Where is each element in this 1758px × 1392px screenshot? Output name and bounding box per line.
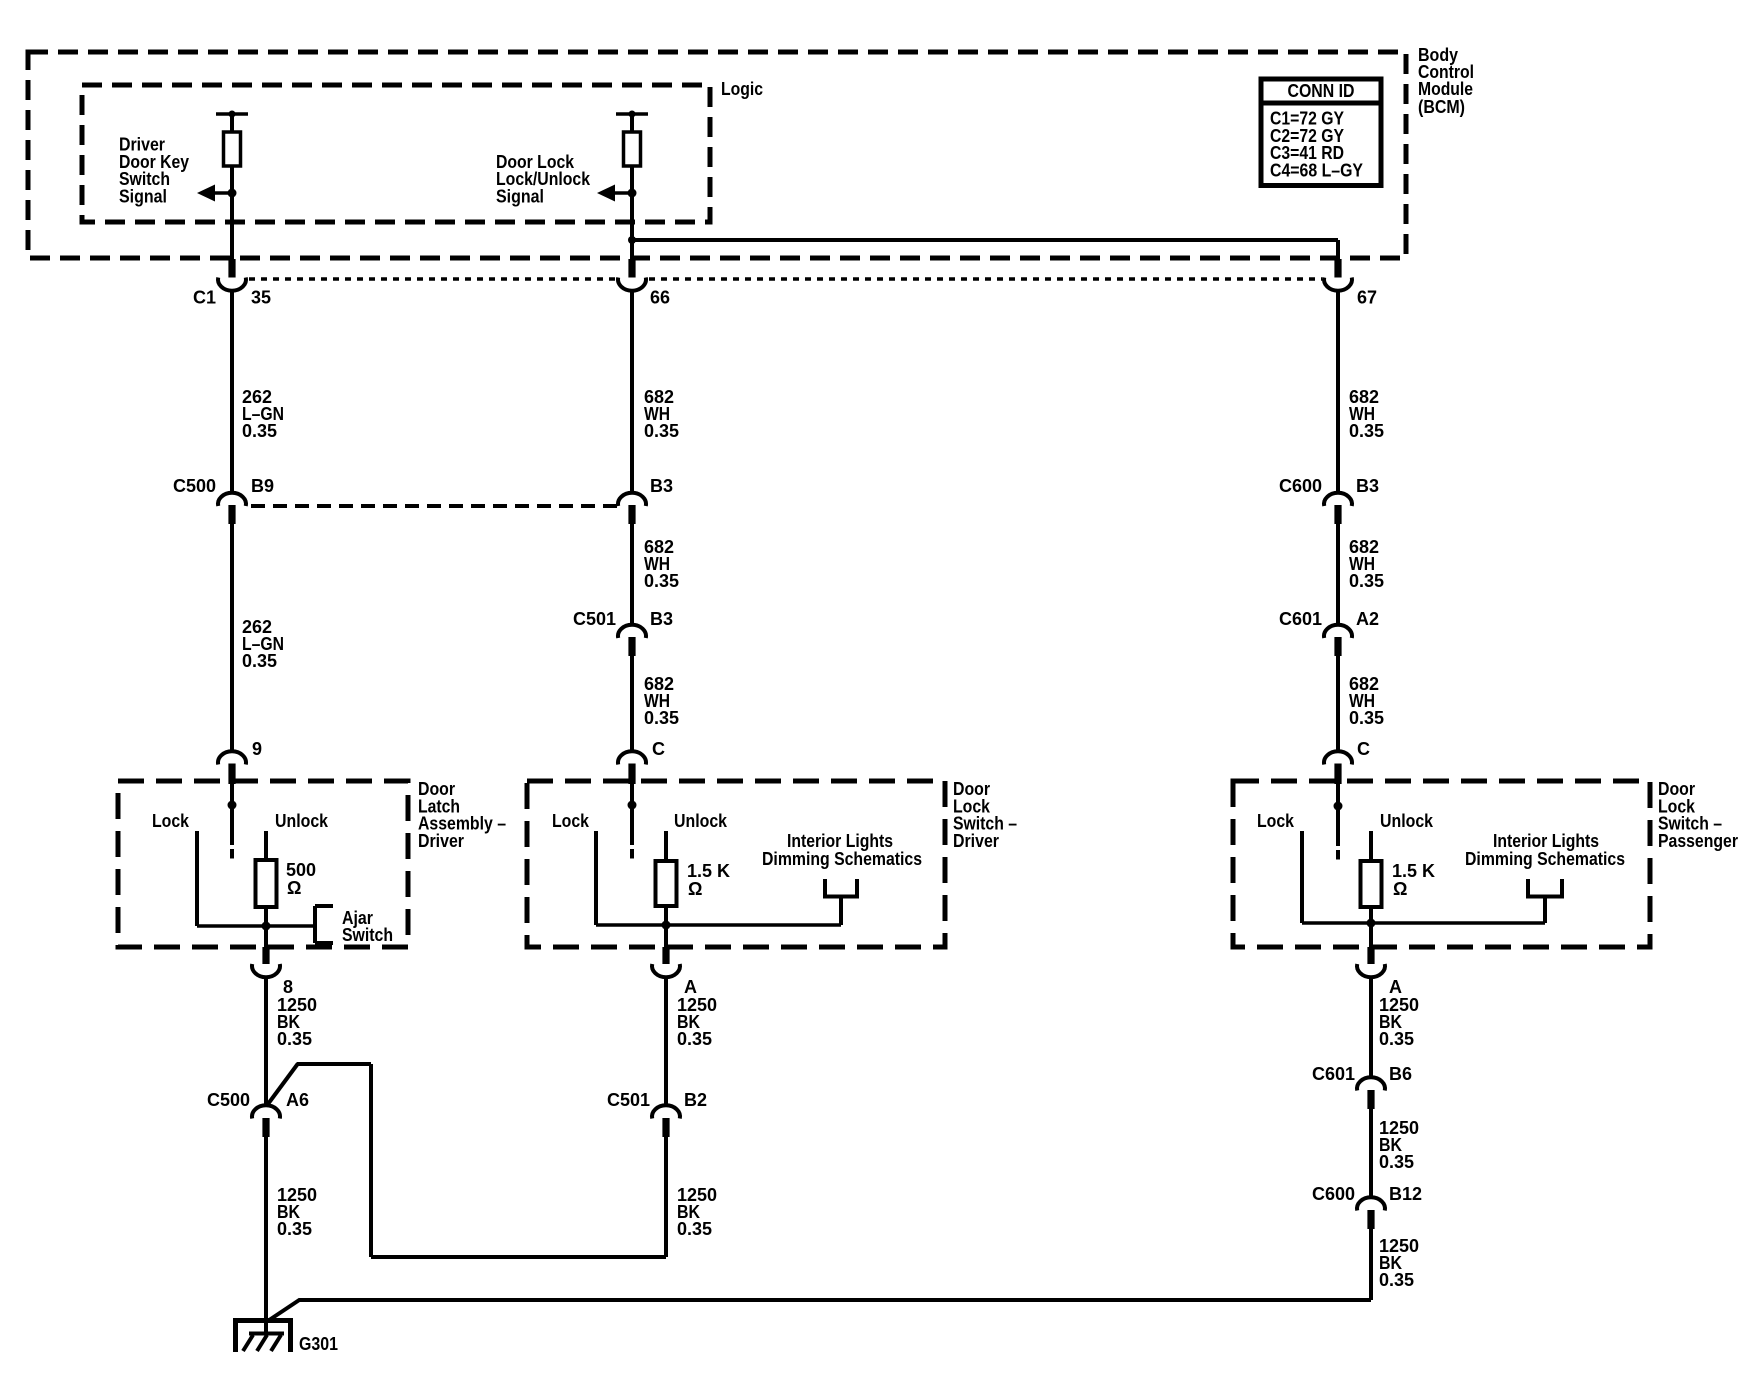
svg-text:Ω: Ω: [287, 878, 301, 898]
svg-text:Dimming Schematics: Dimming Schematics: [1465, 849, 1625, 869]
svg-text:C: C: [652, 739, 665, 759]
Lock contact (passenger switch): [1257, 811, 1302, 923]
svg-text:G301: G301: [299, 1334, 338, 1354]
svg-text:Interior Lights: Interior Lights: [1493, 831, 1599, 851]
Door Lock Switch - Driver dashed box: [527, 781, 945, 947]
wire 262 L-GN (C500 B9 to latch pin 9): [230, 524, 234, 751]
Unlock contact (driver switch): [666, 811, 728, 861]
resistor 1.5 K ohm (passenger switch): [1361, 861, 1436, 907]
svg-text:A: A: [1389, 977, 1402, 997]
connector C600 pin B12: [1312, 1184, 1422, 1229]
resistor 500 ohm (latch): [256, 860, 317, 907]
svg-text:Unlock: Unlock: [674, 811, 728, 831]
svg-text:A2: A2: [1356, 609, 1379, 629]
svg-text:B3: B3: [1356, 476, 1379, 496]
svg-text:0.35: 0.35: [644, 571, 679, 591]
svg-text:CONN ID: CONN ID: [1288, 81, 1355, 101]
connector pin C (door lock switch passenger): [1324, 739, 1370, 784]
wire 262 L-GN (BCM 35 to C500 B9): [230, 291, 234, 493]
wire label 1250 BK 0.35: [1379, 1236, 1419, 1290]
svg-text:Driver: Driver: [418, 831, 464, 851]
svg-text:Dimming Schematics: Dimming Schematics: [762, 849, 922, 869]
Interior Lights Dimming Schematics label (driver): [762, 831, 922, 869]
svg-text:Passenger: Passenger: [1658, 831, 1738, 851]
connector C601 pin B6: [1312, 1064, 1412, 1109]
switch pole wire (passenger switch, from pin C): [1334, 784, 1343, 860]
connector C1 pin 35: [193, 259, 271, 308]
connector C501 pin B2: [607, 1090, 707, 1137]
wire label 682 WH 0.35: [644, 387, 679, 441]
svg-text:66: 66: [650, 288, 670, 308]
Door Lock Switch - Driver label: [953, 779, 1017, 851]
svg-text:0.35: 0.35: [1349, 708, 1384, 728]
svg-text:C500: C500: [207, 1090, 250, 1110]
svg-text:67: 67: [1357, 288, 1377, 308]
svg-text:1.5 K: 1.5 K: [1392, 861, 1435, 881]
connector pin B3 (driver switch harness): [618, 476, 673, 524]
svg-text:Interior Lights: Interior Lights: [787, 831, 893, 851]
svg-text:Lock: Lock: [552, 811, 590, 831]
wire label 1250 BK 0.35: [1379, 1118, 1419, 1172]
svg-text:0.35: 0.35: [1379, 1270, 1414, 1290]
wire 682 WH (BCM 67 down): [1336, 291, 1340, 493]
wire label 1250 BK 0.35: [277, 995, 317, 1049]
wire resistor to bus (driver switch): [664, 906, 668, 925]
wire resistor to bus (latch): [264, 907, 268, 926]
svg-text:0.35: 0.35: [644, 421, 679, 441]
svg-text:C500: C500: [173, 476, 216, 496]
Lock contact (latch): [152, 811, 197, 926]
svg-text:9: 9: [252, 739, 262, 759]
svg-text:Module: Module: [1418, 79, 1473, 99]
wire 682 WH (C501 B3 to switch pin C): [630, 656, 634, 751]
connector face dashed line (C500): [251, 504, 617, 508]
wire bus to pin 8 (latch): [264, 926, 268, 947]
Logic dashed box: [82, 85, 710, 222]
svg-text:Unlock: Unlock: [275, 811, 329, 831]
connector C501 pin B3: [573, 609, 673, 656]
resistor R1 pull-up (Driver Door Key Switch Signal): [216, 111, 248, 194]
connector pin 9 (door latch assembly driver): [218, 739, 262, 784]
Door Latch Assembly - Driver dashed box: [118, 781, 408, 947]
wire 1250 BK (passenger switch pin A to C601 B6): [1369, 978, 1373, 1077]
switch pole wire (latch, from pin 9): [228, 784, 237, 859]
wire 1250 BK (C601 B6 to C600 B12): [1369, 1109, 1373, 1197]
Ajar Switch symbol: [315, 906, 393, 945]
svg-text:0.35: 0.35: [242, 651, 277, 671]
svg-text:Unlock: Unlock: [1380, 811, 1434, 831]
wire label 262 L-GN 0.35: [242, 617, 284, 671]
Door Lock Lock/Unlock Signal label: [496, 152, 591, 207]
dimming schematic tap symbol (passenger): [1528, 879, 1562, 923]
svg-text:0.35: 0.35: [1349, 571, 1384, 591]
svg-text:B3: B3: [650, 609, 673, 629]
svg-text:B9: B9: [251, 476, 274, 496]
wire label 262 L-GN 0.35: [242, 387, 284, 441]
node junction on wire 66 branch: [628, 236, 636, 244]
connector pin A (door lock switch driver): [652, 947, 697, 997]
svg-text:C: C: [1357, 739, 1370, 759]
wire 682 WH (to C501 B3): [630, 524, 634, 624]
wire 1250 BK (driver switch pin A to C501 B2): [664, 978, 668, 1105]
connector C1 pin 67: [1324, 259, 1377, 308]
wire label 1250 BK 0.35: [677, 995, 717, 1049]
svg-text:Signal: Signal: [119, 186, 167, 206]
svg-text:35: 35: [251, 288, 271, 308]
svg-text:500: 500: [286, 860, 316, 880]
connector pin A (door lock switch passenger): [1357, 947, 1402, 997]
bus wire (passenger switch): [1302, 919, 1545, 928]
wire branch to BCM pin 67: [632, 238, 1338, 242]
svg-text:A6: A6: [286, 1090, 309, 1110]
Door Lock Switch - Passenger label: [1658, 779, 1738, 851]
connector pin C (door lock switch driver): [618, 739, 665, 784]
Unlock contact (passenger switch): [1371, 811, 1434, 861]
wire resistor to bus (passenger switch): [1369, 907, 1373, 923]
svg-text:Signal: Signal: [496, 186, 544, 206]
wire label 1250 BK 0.35: [1379, 995, 1419, 1049]
svg-text:C501: C501: [573, 609, 616, 629]
svg-text:0.35: 0.35: [277, 1219, 312, 1239]
dimming schematic tap symbol (driver): [825, 879, 857, 925]
svg-text:C601: C601: [1312, 1064, 1355, 1084]
bus wire (driver switch): [596, 921, 841, 930]
Driver Door Key Switch Signal label: [119, 135, 189, 207]
svg-text:C600: C600: [1279, 476, 1322, 496]
BCM label: [1418, 45, 1474, 117]
wire label 1250 BK 0.35 (driver switch ground): [677, 1185, 717, 1239]
svg-text:0.35: 0.35: [277, 1029, 312, 1049]
Unlock contact (latch): [266, 811, 329, 860]
wire passenger ground run to G301: [269, 1300, 1372, 1321]
svg-text:(BCM): (BCM): [1418, 97, 1465, 117]
wire 1250 BK (C500 A6 to G301): [264, 1137, 268, 1333]
svg-text:Driver: Driver: [953, 831, 999, 851]
bus wire (latch): [197, 922, 315, 931]
connector C1 pin 66: [618, 259, 670, 308]
svg-text:B12: B12: [1389, 1184, 1422, 1204]
wire label 682 WH 0.35: [644, 537, 679, 591]
svg-text:Switch: Switch: [342, 925, 393, 945]
Door Latch Assembly - Driver label: [418, 779, 506, 851]
signal arrow (Door Lock Lock/Unlock Signal): [597, 185, 637, 202]
connector face dotted line (BCM C1): [249, 277, 615, 281]
svg-text:0.35: 0.35: [1379, 1029, 1414, 1049]
svg-text:1.5 K: 1.5 K: [687, 861, 730, 881]
svg-text:0.35: 0.35: [644, 708, 679, 728]
connector C500 pin B9: [173, 476, 274, 524]
wire label 682 WH 0.35: [1349, 537, 1384, 591]
svg-text:8: 8: [283, 977, 293, 997]
svg-text:0.35: 0.35: [677, 1029, 712, 1049]
svg-text:C601: C601: [1279, 609, 1322, 629]
svg-text:C501: C501: [607, 1090, 650, 1110]
wire bus to pin A (driver switch): [664, 925, 668, 947]
wire label 682 WH 0.35: [1349, 387, 1384, 441]
wire 1250 BK (C600 B12 to ground run): [1369, 1229, 1373, 1300]
wire from R1 down to BCM pin 35: [230, 193, 234, 259]
switch pole wire (driver switch, from pin C): [628, 784, 637, 859]
svg-text:C600: C600: [1312, 1184, 1355, 1204]
svg-text:B2: B2: [684, 1090, 707, 1110]
svg-text:0.35: 0.35: [242, 421, 277, 441]
Body Control Module (BCM) dashed box: [28, 52, 1406, 258]
svg-text:C1: C1: [193, 288, 216, 308]
svg-text:Ω: Ω: [1393, 879, 1407, 899]
wire branch driver switch ground to latch ground: [267, 1064, 667, 1258]
connector C600 pin B3: [1279, 476, 1379, 524]
Lock contact (driver switch): [552, 811, 596, 925]
svg-text:B3: B3: [650, 476, 673, 496]
svg-text:A: A: [684, 977, 697, 997]
connector C601 pin A2: [1279, 609, 1379, 656]
Interior Lights Dimming Schematics label (passenger): [1465, 831, 1625, 869]
connector C500 pin A6: [207, 1090, 309, 1137]
svg-text:Lock: Lock: [152, 811, 190, 831]
wire label 682 WH 0.35: [644, 674, 679, 728]
wire label 1250 BK 0.35: [277, 1185, 317, 1239]
svg-text:Ω: Ω: [688, 879, 702, 899]
resistor R2 pull-up (Door Lock Lock/Unlock Signal): [616, 111, 648, 194]
wire label 682 WH 0.35: [1349, 674, 1384, 728]
svg-text:Lock: Lock: [1257, 811, 1295, 831]
wire 682 WH (BCM 66 down): [630, 291, 634, 493]
svg-text:0.35: 0.35: [1349, 421, 1384, 441]
svg-text:Logic: Logic: [721, 79, 763, 99]
svg-text:0.35: 0.35: [677, 1219, 712, 1239]
resistor 1.5 K ohm (driver switch): [656, 861, 731, 906]
wire 682 WH (to C601 A2): [1336, 524, 1340, 624]
signal arrow (Driver Door Key Switch Signal): [197, 185, 237, 202]
svg-text:C4=68 L–GY: C4=68 L–GY: [1270, 161, 1363, 181]
CONN ID table: [1261, 79, 1381, 186]
ground G301: [233, 1320, 338, 1354]
wire bus to pin A (passenger switch): [1369, 923, 1373, 947]
connector pin 8 (door latch assembly driver): [252, 947, 293, 997]
wire 1250 BK (latch pin 8 to C500 A6): [264, 978, 268, 1105]
svg-text:B6: B6: [1389, 1064, 1412, 1084]
wire from R2 down to BCM pin 66: [630, 193, 634, 259]
svg-text:0.35: 0.35: [1379, 1152, 1414, 1172]
Door Lock Switch - Passenger dashed box: [1233, 781, 1650, 947]
wire 682 WH (C601 A2 to switch pin C): [1336, 656, 1340, 751]
